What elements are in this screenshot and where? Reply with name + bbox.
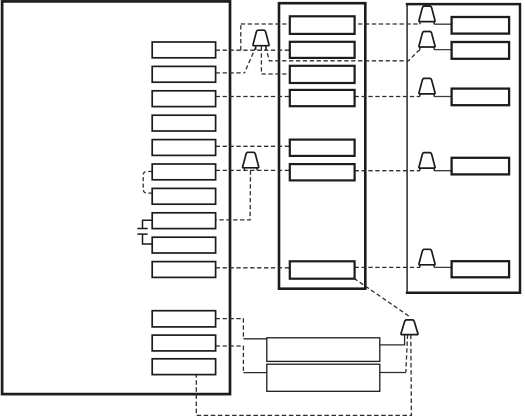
lamp L2 — [419, 32, 436, 50]
module m4 — [290, 90, 355, 106]
wire into box B left port — [243, 372, 266, 374]
wire lamp L4 to rr4 — [434, 170, 452, 172]
lamp L4 — [419, 153, 436, 171]
wire m7 to lamp L5 — [355, 266, 420, 268]
module m2 — [290, 42, 355, 58]
wire m4 to lamp L3 — [355, 96, 420, 98]
wire r11 jog to box A — [216, 319, 244, 339]
indicator rr4 — [452, 158, 510, 175]
zone module box — [279, 3, 365, 289]
wire T3 right foot bottom run to r13 — [196, 335, 411, 416]
wire r3 to m4 — [216, 96, 290, 98]
module m5 — [290, 140, 355, 156]
terminal r8 — [152, 213, 215, 229]
lamp L1 — [419, 6, 436, 24]
lamp L5 — [419, 249, 436, 267]
module m6 — [290, 164, 355, 180]
terminal r11 — [152, 311, 215, 327]
wire top run to lamp L1 — [241, 23, 420, 25]
wire r2 to T1 — [216, 72, 245, 74]
indicator box thick sides — [406, 4, 520, 293]
wire box A right port to T3 — [380, 335, 405, 345]
lamp L3 — [419, 78, 436, 96]
wire r1 to jog — [216, 49, 290, 51]
terminal r2 — [152, 66, 215, 82]
control panel box — [2, 1, 230, 394]
wire lamp L2 to rr2 — [434, 49, 452, 51]
capacitor link r8 r9 — [137, 220, 152, 244]
terminal r3 — [152, 91, 215, 107]
wire T3 mid foot to box B level — [406, 335, 408, 373]
wire T1 right leg to lamp L2 — [266, 47, 420, 61]
terminal r10 — [152, 262, 215, 278]
terminal r5 — [152, 140, 215, 156]
output box B — [267, 364, 380, 391]
terminal r12 — [152, 335, 215, 351]
indicator rr2 — [452, 42, 510, 59]
wire into box A left port — [243, 338, 266, 340]
wire lamp L1 to rr1 — [434, 23, 452, 25]
module m3 — [290, 66, 355, 83]
wire box B right port — [380, 372, 406, 374]
wire T2 down leg to r8 — [216, 170, 251, 220]
sounder T2 — [242, 152, 259, 170]
terminal r4 — [152, 115, 215, 131]
wire m7 diagonal to T3 — [354, 278, 409, 316]
terminal r9 — [152, 237, 215, 253]
wire loop r6 to r7 — [143, 172, 152, 194]
wire r10 to m7 — [216, 267, 290, 269]
terminal r6 — [152, 164, 215, 180]
wire T1 left leg — [245, 47, 257, 73]
wire T1 mid leg to m3 — [261, 47, 289, 75]
output box A — [267, 338, 380, 362]
terminal r7 — [152, 188, 215, 204]
terminal r13 — [152, 359, 215, 375]
wire r6 to m6 — [216, 169, 290, 171]
wire r5 to m5 — [216, 145, 290, 147]
module m1 — [290, 16, 355, 34]
indicator rr5 — [452, 261, 510, 277]
indicator rr3 — [452, 89, 510, 106]
indicator box thin left edge — [406, 3, 408, 294]
sounder T1 — [253, 30, 270, 50]
wire m6 to lamp L4 — [355, 170, 420, 172]
terminal r1 — [152, 42, 215, 58]
indicator rr1 — [452, 17, 510, 34]
sounder T3 — [401, 320, 419, 335]
wire lamp L5 to rr5 — [434, 266, 452, 268]
wire jog vertical — [240, 24, 242, 50]
wire r12 jog to box B — [216, 346, 244, 373]
wire lamp L3 to rr3 — [434, 96, 452, 98]
module m7 — [290, 261, 355, 278]
